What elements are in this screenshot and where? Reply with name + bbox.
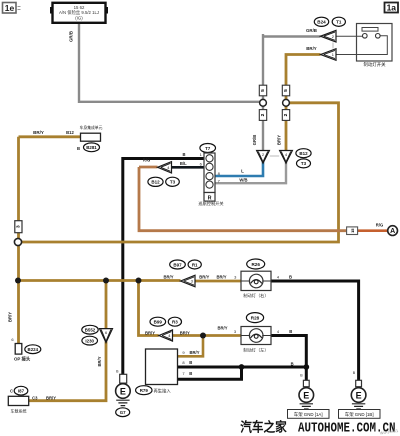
svg-text:BR/Y: BR/Y	[199, 274, 209, 279]
svg-text:B24: B24	[317, 20, 326, 25]
svg-text:车架 GND [1A]: 车架 GND [1A]	[294, 411, 323, 418]
svg-text:B12: B12	[66, 130, 74, 135]
svg-text:B: B	[77, 146, 80, 151]
svg-text:B: B	[289, 275, 292, 280]
svg-text:BR/Y: BR/Y	[8, 312, 13, 322]
svg-text:R/G: R/G	[376, 222, 383, 227]
svg-text:R/G: R/G	[143, 157, 150, 162]
svg-text:2: 2	[262, 153, 264, 157]
svg-text:B99: B99	[154, 320, 163, 325]
svg-text:E: E	[303, 391, 309, 401]
svg-text:R79: R79	[140, 388, 149, 393]
svg-text:2: 2	[260, 113, 266, 116]
svg-text:BR/Y: BR/Y	[189, 350, 199, 355]
svg-text:B97: B97	[173, 262, 182, 267]
svg-text:BR/Y: BR/Y	[217, 326, 227, 331]
svg-text:GR/B: GR/B	[306, 28, 317, 33]
svg-text:T1: T1	[336, 20, 342, 25]
svg-text:I87: I87	[18, 389, 25, 394]
svg-text:T3: T3	[301, 161, 307, 166]
svg-text:1e: 1e	[5, 3, 15, 13]
svg-text:巡航控制开关: 巡航控制开关	[198, 200, 223, 207]
svg-text:2: 2	[283, 113, 289, 116]
svg-text:E: E	[356, 391, 362, 401]
svg-text:I230: I230	[85, 338, 94, 343]
svg-text:1a: 1a	[387, 3, 397, 13]
svg-text:BR/Y: BR/Y	[306, 46, 317, 51]
svg-text:C: C	[10, 389, 13, 394]
svg-text:1: 1	[332, 52, 334, 57]
svg-text:B: B	[291, 361, 294, 366]
svg-text:制动灯（右）: 制动灯（右）	[243, 292, 268, 299]
svg-text:6: 6	[105, 331, 107, 335]
svg-text:BR/Y: BR/Y	[216, 274, 226, 279]
svg-text:L: L	[241, 169, 244, 174]
svg-text:W/B: W/B	[239, 177, 247, 182]
svg-text:5: 5	[260, 89, 266, 92]
svg-text:BR/Y: BR/Y	[33, 130, 44, 135]
svg-text:BR/Y: BR/Y	[46, 395, 56, 400]
svg-text:B: B	[289, 329, 292, 334]
svg-text:BR/Y: BR/Y	[97, 356, 102, 366]
svg-text:GR/B: GR/B	[69, 31, 74, 42]
svg-text:B: B	[182, 152, 185, 157]
svg-text:R1: R1	[192, 262, 198, 267]
svg-text:T3: T3	[170, 180, 176, 185]
svg-text:B12: B12	[151, 180, 160, 185]
svg-text:2: 2	[332, 34, 334, 39]
svg-text:T7: T7	[205, 146, 211, 151]
svg-text:BR/Y: BR/Y	[180, 330, 190, 335]
svg-text:3: 3	[15, 225, 21, 228]
svg-text:(IG): (IG)	[75, 15, 83, 20]
svg-text:B552: B552	[85, 328, 96, 333]
svg-text:汽车之家: 汽车之家	[240, 420, 287, 435]
svg-text:制动灯开关: 制动灯开关	[364, 61, 387, 68]
svg-text:BR/Y: BR/Y	[277, 135, 282, 145]
svg-text:E: E	[120, 387, 126, 397]
svg-text:G7: G7	[120, 410, 126, 415]
svg-text:5: 5	[283, 89, 289, 92]
svg-text:车载系统: 车载系统	[11, 408, 27, 414]
svg-text:B224: B224	[28, 347, 39, 352]
svg-text:B/L: B/L	[180, 161, 187, 166]
svg-text:BR/Y: BR/Y	[163, 274, 173, 279]
svg-text:A: A	[390, 228, 395, 235]
svg-text:R28: R28	[251, 316, 260, 321]
svg-text:C3: C3	[32, 395, 38, 400]
svg-text:车架 GND [1B]: 车架 GND [1B]	[345, 411, 374, 418]
svg-text:B: B	[189, 371, 192, 376]
svg-text:R26: R26	[251, 262, 260, 267]
svg-text:B12: B12	[299, 151, 308, 156]
svg-text:OP 接头: OP 接头	[14, 355, 31, 362]
svg-text:B: B	[189, 360, 192, 365]
svg-text:3: 3	[191, 279, 193, 284]
svg-text:B281: B281	[86, 145, 97, 150]
svg-text:GR/B: GR/B	[252, 135, 257, 145]
svg-text:车身集成单元: 车身集成单元	[80, 125, 103, 130]
svg-text:15: 15	[350, 228, 355, 233]
svg-text:4: 4	[285, 153, 287, 157]
svg-text:BR/Y: BR/Y	[145, 330, 155, 335]
svg-text:制动灯（左）: 制动灯（左）	[243, 347, 268, 354]
svg-text:R3: R3	[172, 320, 178, 325]
svg-text:再生接入: 再生接入	[154, 387, 172, 394]
